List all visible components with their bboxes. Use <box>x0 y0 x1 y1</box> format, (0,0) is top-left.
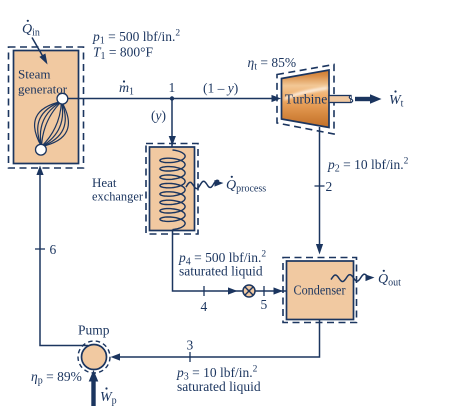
Wp label <box>100 387 117 406</box>
steam generator tubes <box>35 102 69 147</box>
wire: branch down to heat exchanger <box>171 99 173 151</box>
svg-text:4: 4 <box>201 299 208 314</box>
turbine U1 <box>282 70 330 128</box>
svg-text:p2 = 10 lbf/in.2: p2 = 10 lbf/in.2 <box>327 157 409 175</box>
m1 label <box>119 80 134 97</box>
node 5 tick <box>263 286 265 296</box>
svg-text:3: 3 <box>187 338 194 353</box>
svg-text:Turbine: Turbine <box>285 92 328 107</box>
node 4 tick <box>203 286 205 296</box>
svg-text:2: 2 <box>326 179 333 194</box>
arrowhead into steam generator <box>36 166 43 176</box>
svg-text:ηp = 89%: ηp = 89% <box>31 369 82 387</box>
svg-text:T1 = 800°F: T1 = 800°F <box>93 45 154 63</box>
arrowhead into condenser <box>316 244 323 255</box>
valve <box>243 285 255 297</box>
wire: pump to steam generator <box>40 174 88 346</box>
svg-text:exchanger: exchanger <box>92 189 144 204</box>
wire: heat exchanger to valve <box>173 230 287 292</box>
svg-text:ηt = 85%: ηt = 85% <box>248 55 297 73</box>
Wp bold arrow <box>89 370 99 406</box>
turbine highlight <box>285 87 328 100</box>
node 3 tick <box>189 352 191 362</box>
steam generator top port <box>57 93 68 104</box>
Wt bold arrow <box>355 94 382 104</box>
heat exchanger dashed boundary <box>146 144 198 235</box>
wire: condenser to pump <box>119 320 320 358</box>
svg-text:(1 – y): (1 – y) <box>203 81 238 96</box>
wire: turbine to condenser <box>319 127 321 245</box>
svg-text:Qprocess: Qprocess <box>226 178 266 195</box>
svg-text:Wt: Wt <box>389 93 404 110</box>
heat exchanger box <box>150 147 195 231</box>
Qout label <box>378 270 401 289</box>
Qprocess label <box>226 176 266 195</box>
wire: steam generator to turbine <box>68 98 278 100</box>
pump dashed boundary <box>78 341 110 373</box>
Wt label <box>389 90 404 109</box>
pump <box>82 345 107 370</box>
turbine shaft <box>329 96 353 103</box>
arrowhead before valve <box>228 287 238 294</box>
svg-text:generator: generator <box>18 82 68 97</box>
Qin label <box>22 20 40 39</box>
svg-text:Wp: Wp <box>100 390 117 407</box>
svg-text:5: 5 <box>261 297 268 312</box>
node 1 junction dot <box>170 96 174 100</box>
arrowhead into condenser left <box>274 287 284 294</box>
Qprocess wavy arrow <box>186 180 224 189</box>
arrowhead into heat exchanger <box>169 136 176 146</box>
svg-text:Qout: Qout <box>378 272 401 289</box>
svg-text:1: 1 <box>129 87 134 98</box>
steam generator bottom port <box>36 144 47 155</box>
condenser dashed boundary <box>283 258 357 323</box>
svg-text:1: 1 <box>169 80 176 95</box>
arrowhead into pump <box>111 353 121 360</box>
heat exchanger coil <box>160 150 185 230</box>
svg-text:saturated liquid: saturated liquid <box>179 264 263 279</box>
arrowhead into turbine <box>272 95 282 102</box>
node 6 tick <box>35 248 45 250</box>
node 2 tick <box>315 185 325 187</box>
svg-text:Qin: Qin <box>22 22 40 39</box>
svg-text:Condenser: Condenser <box>294 283 346 298</box>
Qin arrow <box>32 38 48 65</box>
turbine dashed boundary <box>277 65 334 135</box>
Qout wavy arrow <box>331 274 375 281</box>
svg-text:saturated liquid: saturated liquid <box>177 379 261 394</box>
condenser box <box>287 261 354 320</box>
svg-text:(y): (y) <box>151 108 166 123</box>
steam generator box <box>14 51 79 164</box>
svg-text:m: m <box>119 81 129 96</box>
svg-text:Steam: Steam <box>18 67 51 82</box>
svg-text:Pump: Pump <box>78 323 110 338</box>
steam generator dashed boundary <box>9 47 84 168</box>
svg-text:6: 6 <box>50 242 57 257</box>
